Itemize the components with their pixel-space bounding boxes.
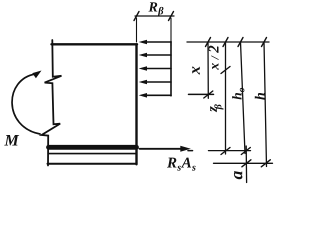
- label M: [4, 135, 19, 145]
- Rb dimension line: [135, 15, 174, 17]
- label a: [234, 171, 242, 179]
- bottom datum line: [214, 162, 273, 164]
- Rb tick right: [169, 12, 174, 21]
- tick top x: [206, 38, 211, 47]
- label x/2: [209, 46, 219, 70]
- a dimension line: [245, 146, 247, 183]
- x dimension line: [207, 42, 209, 98]
- stress arrow 1: [145, 41, 172, 43]
- label h: [255, 93, 265, 100]
- label zb: [210, 104, 223, 112]
- label x: [192, 66, 200, 74]
- tick h0 bottom: [241, 148, 250, 155]
- tick x bottom: [204, 91, 213, 98]
- tick x/2 bottom: [221, 67, 230, 74]
- x/2 and zb shared dimension line: [225, 42, 227, 154]
- neutral axis bar: [189, 93, 214, 95]
- h dimension line: [264, 42, 267, 167]
- moment arc M: [12, 74, 40, 134]
- beam top edge: [52, 43, 138, 45]
- label Rb: [148, 2, 163, 16]
- beam bottom edge: [48, 163, 137, 165]
- reinforcement bar band As: [49, 145, 137, 150]
- stress block tail line: [170, 42, 172, 96]
- Rb tick left: [134, 12, 139, 21]
- force arrow RsAs: [140, 148, 183, 150]
- label h0: [232, 88, 244, 100]
- Rb dimension extension line left: [136, 18, 138, 42]
- second reinforcement line: [49, 153, 137, 155]
- beam right edge: [135, 44, 137, 164]
- tick top x/2: [223, 38, 228, 47]
- stress arrow 2: [145, 54, 172, 56]
- stress arrow 3: [145, 68, 172, 70]
- tick top h: [262, 38, 267, 47]
- Rb dimension extension line right: [170, 18, 172, 46]
- tick zb bottom: [221, 148, 230, 155]
- stress arrow 5: [145, 94, 172, 96]
- steel level datum line: [209, 150, 251, 152]
- tick a bottom: [242, 160, 251, 167]
- steel level datum dash: [188, 150, 193, 152]
- top datum line: [187, 41, 269, 43]
- tick h bottom: [261, 160, 270, 167]
- moment arrowhead: [32, 71, 41, 79]
- label RsAs: [167, 158, 196, 171]
- h0 dimension line: [241, 42, 246, 154]
- tick top h0: [238, 38, 243, 47]
- beam left edge with break symbols: [42, 40, 62, 166]
- stress arrow 4: [145, 81, 172, 83]
